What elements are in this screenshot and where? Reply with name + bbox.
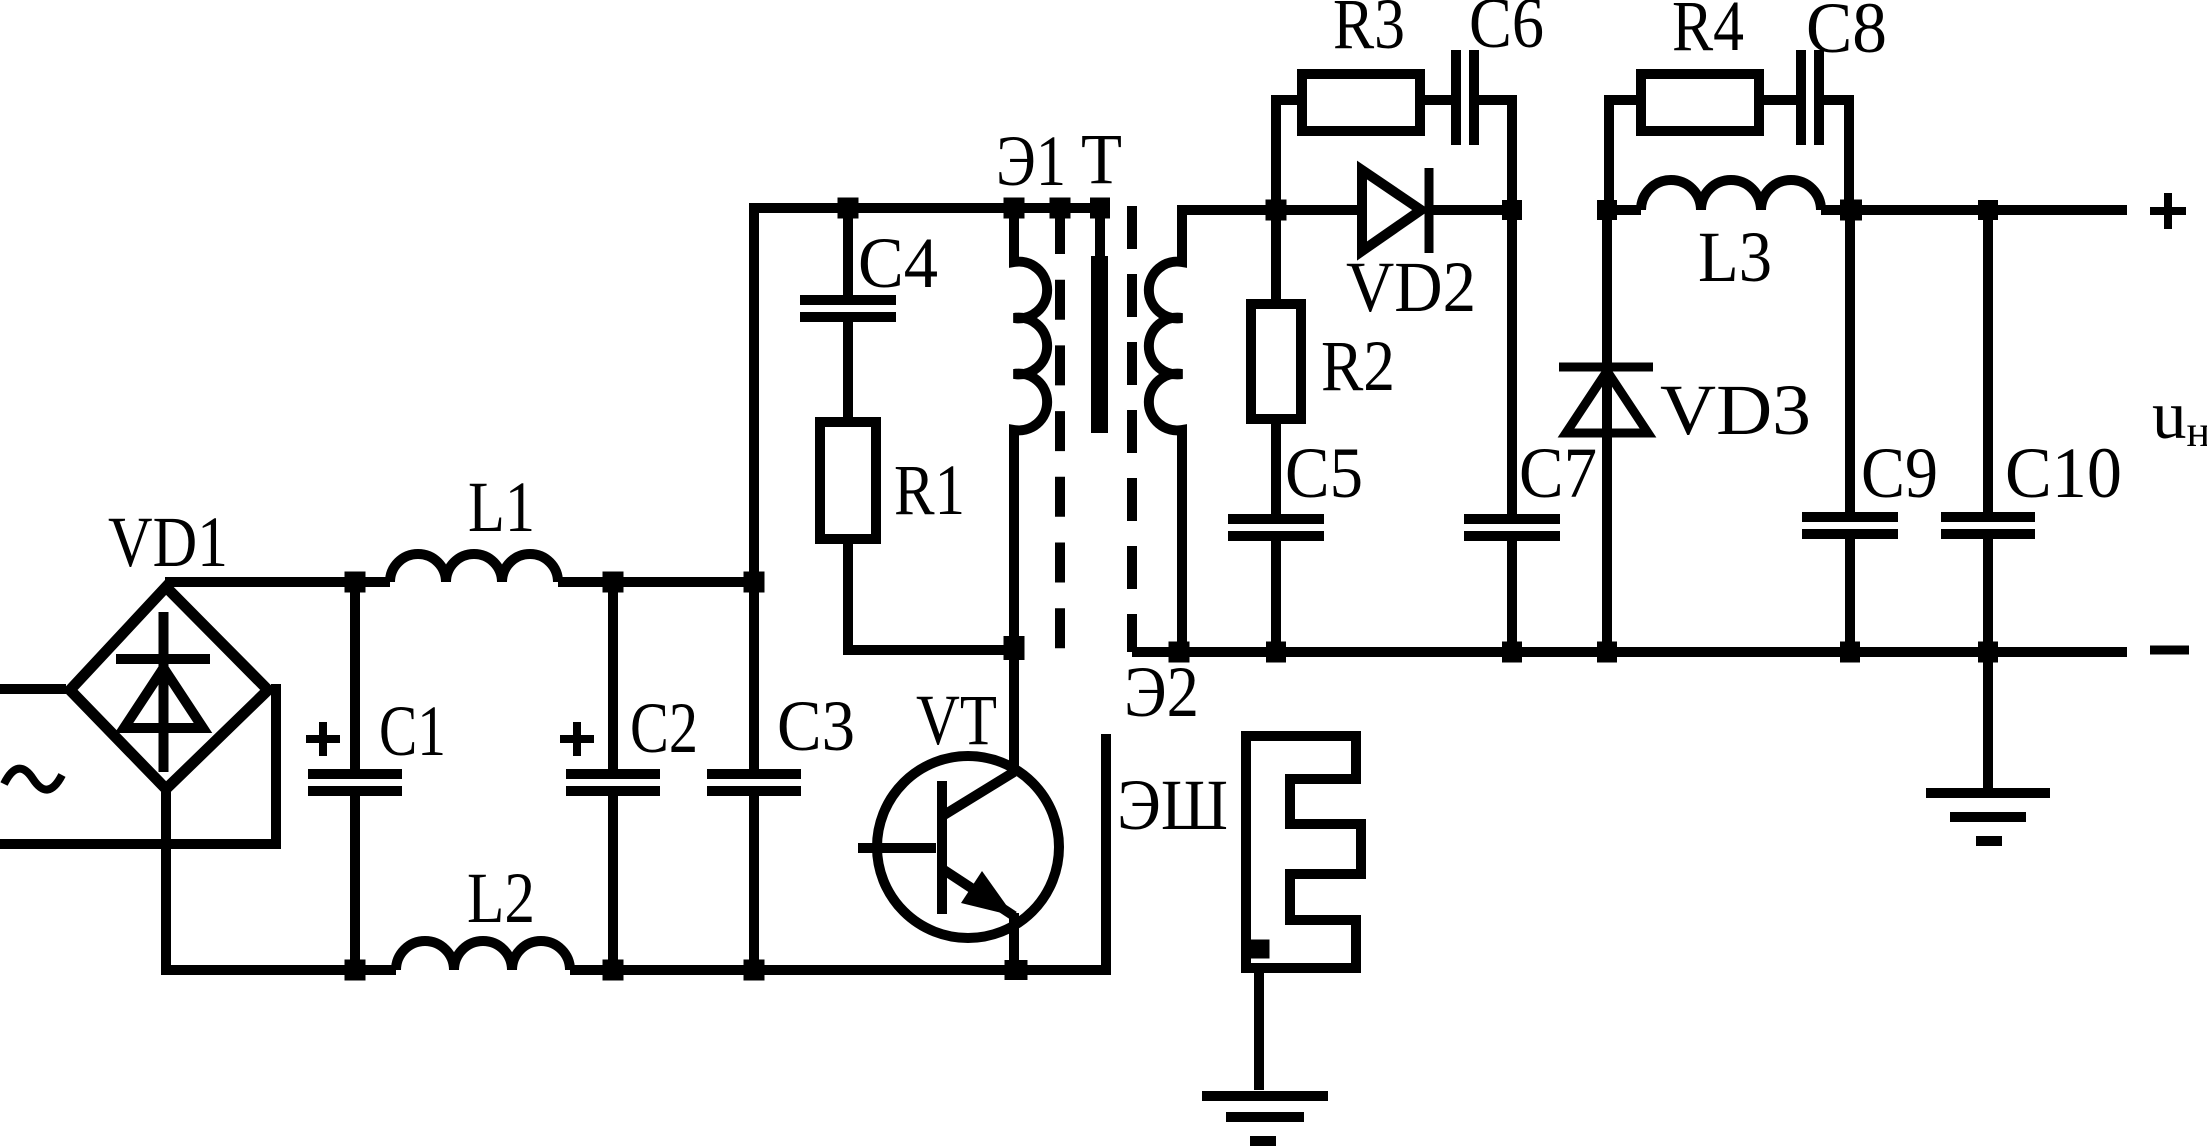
capacitor C4 plates [800, 300, 896, 317]
transformer screen Э2 dashed line [1127, 206, 1137, 652]
svg-text:C3: C3 [777, 686, 855, 766]
capacitor C2 top lead [608, 582, 618, 769]
svg-text:C2: C2 [630, 688, 698, 768]
diode VD3 triangle [1566, 371, 1648, 433]
svg-text:Э2: Э2 [1124, 652, 1199, 732]
wire bridge top output [165, 577, 390, 587]
capacitor C4 top lead [843, 208, 853, 295]
svg-text:VD2: VD2 [1346, 247, 1476, 327]
transistor VT emitter lead [1009, 913, 1019, 970]
resistor R4 [1641, 74, 1759, 131]
capacitor C5 plates [1228, 519, 1324, 536]
capacitor C9 bottom lead [1845, 539, 1855, 652]
wire AC input line 1 [0, 684, 66, 694]
capacitor C1 bottom lead [350, 796, 360, 970]
svg-text:R1: R1 [894, 450, 965, 530]
capacitor C3 bottom lead [749, 796, 759, 970]
wire C6 to C7 node [1479, 100, 1512, 210]
capacitor C10 top lead [1983, 210, 1993, 512]
label plus output [2150, 193, 2186, 229]
transistor VT collector lead [1009, 648, 1019, 774]
bridge VD1 inner diode triangle [124, 668, 203, 728]
polarity plus of C2 [560, 722, 594, 756]
ground symbol bottom [1202, 1096, 1328, 1141]
node C9 bottom [1840, 642, 1860, 663]
capacitor C10 bottom lead [1983, 539, 1993, 652]
node C4 top [838, 198, 859, 219]
minus output rail [1132, 647, 2127, 657]
capacitor C6 plates [1456, 50, 1474, 145]
transformer secondary winding [1149, 210, 1276, 652]
node C7 bottom [1502, 642, 1522, 663]
resistor R2 [1251, 304, 1301, 419]
svg-text:ЭШ: ЭШ [1117, 765, 1228, 845]
capacitor C2 plates [566, 774, 660, 791]
node C10 top [1978, 200, 1998, 220]
transformer screen Э1 dashed line [1055, 214, 1065, 648]
svg-text:C10: C10 [2005, 433, 2122, 513]
capacitor C4 bottom lead [843, 322, 853, 417]
capacitor C9 top lead [1845, 210, 1855, 512]
resistor R2 top lead [1271, 210, 1281, 299]
bridge rectifier VD1 diamond [70, 587, 268, 789]
svg-text:L2: L2 [467, 858, 535, 938]
svg-text:C4: C4 [858, 223, 938, 303]
svg-text:Э1: Э1 [996, 121, 1066, 201]
diode VD2 triangle [1362, 170, 1421, 251]
node C2 top [603, 572, 624, 593]
diode VD3 cathode bar [1559, 363, 1653, 372]
node C9 top [1840, 200, 1862, 221]
node C2 bottom [603, 960, 624, 981]
svg-text:VD1: VD1 [108, 502, 228, 582]
capacitor C1 top lead [350, 582, 360, 769]
AC source tilde symbol [4, 769, 62, 790]
capacitor C10 plates [1941, 517, 2035, 534]
svg-text:VT: VT [916, 680, 997, 760]
wire bottom rail left [161, 965, 396, 975]
wire node to VD2 anode [1276, 205, 1358, 215]
capacitor C7 top lead [1507, 210, 1517, 514]
transistor VT base bar [937, 781, 947, 914]
wire riser C3 node to top rail [749, 208, 759, 582]
wire VD3 node to L3 [1607, 205, 1641, 215]
node secondary bottom [1169, 642, 1190, 663]
capacitor C1 plates [308, 774, 402, 791]
node comb junction dot [1249, 940, 1270, 959]
capacitor C7 plates [1464, 519, 1560, 536]
resistor R3 [1302, 74, 1420, 131]
wire plus output rail [1821, 205, 2127, 215]
transistor VT emitter diagonal [944, 870, 1014, 916]
svg-text:C6: C6 [1469, 0, 1544, 63]
capacitor C9 plates [1802, 517, 1898, 534]
ground symbol right [1926, 793, 2050, 841]
node primary top [1004, 198, 1025, 219]
node C3 bottom [744, 960, 765, 981]
wire VD2 cathode to C7 node [1433, 205, 1512, 215]
node C5 bottom [1266, 642, 1286, 663]
capacitor C3 plates [707, 774, 801, 791]
wire L1 to C3 node [558, 577, 754, 587]
svg-text:Т: Т [1081, 119, 1122, 199]
svg-text:R2: R2 [1321, 326, 1395, 406]
wire top rail [749, 203, 1109, 213]
shield electrode ЭШ left plate [1101, 734, 1111, 970]
polarity plus of C1 [306, 722, 340, 756]
wire R1 bottom to primary node [848, 544, 1014, 650]
inductor L2 [396, 941, 570, 970]
node VD3 top [1597, 200, 1617, 220]
shield comb electrode [1246, 736, 1361, 968]
node C7 top [1502, 200, 1522, 220]
bridge VD1 inner diode lead [159, 612, 169, 772]
svg-text:L1: L1 [468, 467, 535, 547]
capacitor C3 top lead [749, 582, 759, 769]
node emitter bottom [1005, 960, 1028, 980]
svg-text:C5: C5 [1285, 433, 1363, 513]
node core top [1090, 198, 1110, 219]
transformer core stub [1095, 212, 1105, 258]
node C3 top [744, 572, 765, 593]
label minus output [2150, 646, 2189, 655]
node C1 bottom [345, 960, 366, 981]
inductor L3 [1641, 180, 1821, 210]
svg-text:R3: R3 [1333, 0, 1405, 64]
wire R3 to C6 [1420, 95, 1451, 105]
transformer core bar [1091, 256, 1108, 433]
svg-text:C8: C8 [1806, 0, 1887, 68]
node C10 bottom [1978, 642, 1998, 663]
capacitor C8 plates [1801, 50, 1819, 145]
svg-text:C7: C7 [1519, 433, 1597, 513]
capacitor C5 bottom lead [1271, 541, 1281, 652]
svg-text:C9: C9 [1861, 433, 1938, 513]
svg-text:R4: R4 [1672, 0, 1744, 66]
wire bridge bottom output [161, 789, 171, 970]
wire C8 to L3 node [1823, 100, 1849, 210]
svg-text:C1: C1 [379, 691, 446, 771]
wire snubber R4C8 riser [1609, 100, 1641, 210]
svg-text:VD3: VD3 [1660, 370, 1811, 450]
capacitor C2 bottom lead [608, 796, 618, 970]
wire comb to ground [1254, 968, 1264, 1090]
capacitor C7 bottom lead [1507, 541, 1517, 652]
wire C10 node to ground [1983, 652, 1993, 793]
wire R4 to C8 [1759, 95, 1796, 105]
bridge VD1 inner diode cathode bar [116, 654, 210, 664]
node screen Э1 top [1050, 198, 1071, 219]
transformer T primary winding [1014, 208, 1047, 648]
wire AC input line 2 [0, 684, 276, 844]
wire bottom rail right [570, 965, 1111, 975]
transistor VT collector diagonal [944, 772, 1014, 815]
wire snubber R3C6 riser [1276, 100, 1302, 210]
node C1 top [345, 572, 366, 593]
svg-text:L3: L3 [1698, 217, 1772, 297]
diode VD3 lead [1602, 210, 1612, 652]
transistor VT circle [877, 756, 1059, 938]
node VD2 anode [1266, 200, 1287, 221]
diode VD2 cathode bar [1425, 168, 1434, 253]
resistor R2 bottom lead [1271, 419, 1281, 514]
node primary bottom [1004, 636, 1025, 660]
transistor VT base lead [858, 843, 936, 853]
inductor L1 [390, 554, 558, 582]
node VD3 bottom [1597, 642, 1617, 663]
resistor R1 [820, 422, 876, 539]
transistor VT emitter arrow [961, 871, 1014, 916]
